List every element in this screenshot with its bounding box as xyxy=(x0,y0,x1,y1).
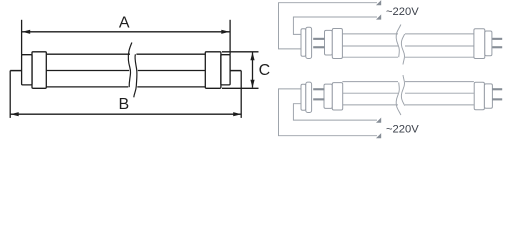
svg-text:C: C xyxy=(259,62,271,79)
svg-text:B: B xyxy=(119,96,130,113)
svg-text:~220V: ~220V xyxy=(386,123,419,135)
svg-text:~220V: ~220V xyxy=(386,6,419,18)
svg-text:A: A xyxy=(119,14,130,31)
